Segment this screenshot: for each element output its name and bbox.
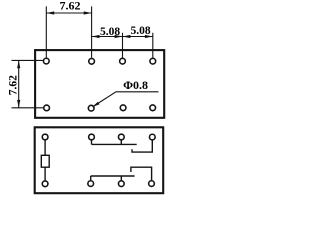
arrowhead left of first 5.08 span [92, 35, 100, 38]
contact pin bottom D [88, 181, 94, 187]
dimension extension line from hole 2 (shared 7.62 / 5.08) [91, 6, 93, 57]
svg-text:Φ0.8: Φ0.8 [123, 78, 148, 92]
hole top row 3 [120, 58, 126, 64]
arrowhead top of vertical 7.62 [17, 60, 20, 68]
wire coil bottom [44, 167, 46, 180]
coil K (rectangle) [41, 155, 49, 167]
leader line for hole diameter callout [93, 92, 159, 107]
bottom view: relay schematic outline box [35, 127, 164, 193]
arrowhead right of second 5.08 span [145, 35, 153, 38]
wire movable blade top group [92, 143, 137, 145]
hole top row 1 [43, 58, 49, 64]
contact pin top A [89, 134, 95, 140]
contact pin bottom F [149, 181, 155, 187]
dimension 7.62 vertical: upper extension line [12, 59, 43, 61]
top view: relay base drilling plan outline box [35, 50, 164, 118]
arrowhead pair at middle extension line [115, 35, 123, 38]
coil pin bottom circle [42, 181, 48, 187]
wire movable blade bottom group [91, 175, 135, 177]
dimension line 5.08 + 5.08 [92, 36, 153, 38]
dimension 7.62 vertical: lower extension line [12, 107, 44, 109]
svg-text:7.62: 7.62 [60, 0, 81, 12]
contact pin top C [149, 134, 155, 140]
hole bottom row 1 [44, 105, 50, 111]
wire fixed contact bracket top group [132, 141, 152, 153]
dimension line 7.62 top [46, 12, 91, 14]
svg-text:5.08: 5.08 [100, 26, 120, 38]
wire fixed contact bracket bottom group [131, 167, 152, 180]
wire stem pin A [91, 140, 93, 144]
dimension 7.62 horizontal: extension line from hole 1 [45, 6, 47, 57]
wire stem pin E [120, 176, 122, 180]
arrowhead left of 7.62 dimension [46, 11, 54, 14]
arrowhead right of 7.62 dimension [84, 11, 92, 14]
hole top row 2 [89, 58, 95, 64]
contact pin bottom E [118, 181, 124, 187]
contact pin top B [118, 134, 124, 140]
arrowhead bottom of vertical 7.62 [17, 100, 20, 108]
hole bottom row 3 [120, 105, 126, 111]
hole bottom row 2 [88, 105, 94, 111]
wire stem pin D [90, 176, 92, 180]
svg-text:7.62: 7.62 [8, 75, 20, 95]
dimension line 7.62 vertical [18, 60, 20, 107]
wire stem pin B [120, 140, 122, 144]
leader arrowhead at hole [92, 102, 100, 108]
dimension extension line from hole 3 [122, 33, 124, 58]
hole top row 4 [150, 58, 156, 64]
wire coil top [44, 140, 46, 155]
svg-text:5.08: 5.08 [131, 25, 151, 37]
coil pin top circle [42, 134, 48, 140]
dimension extension line from hole 4 [152, 33, 154, 58]
hole bottom row 4 [150, 105, 156, 111]
